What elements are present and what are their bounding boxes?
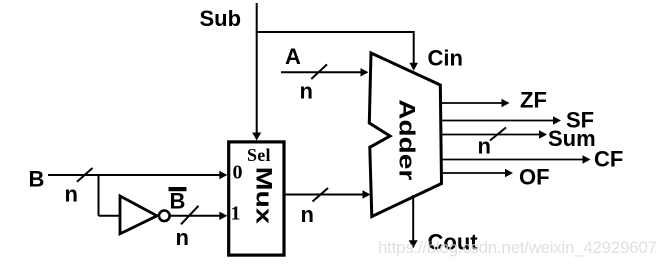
wire OF output	[443, 172, 507, 174]
arrowhead Cin into adder	[409, 63, 418, 71]
arrowhead Cout	[409, 240, 418, 248]
svg-text:B: B	[29, 167, 45, 192]
wire Sub branch horizontal	[256, 31, 414, 33]
wire B branch to inverter	[99, 215, 121, 217]
wire SF output	[441, 120, 555, 122]
mux box	[229, 142, 284, 255]
svg-text:A: A	[285, 44, 301, 69]
svg-text:n: n	[478, 134, 491, 159]
svg-text:Adder: Adder	[395, 99, 420, 181]
svg-text:CF: CF	[594, 147, 623, 172]
arrowhead Sel into Mux	[252, 133, 261, 141]
inverter bubble	[159, 211, 170, 222]
wire Sum output	[441, 134, 540, 136]
arrowhead Bbar into Mux 1	[219, 212, 227, 220]
svg-text:https://blog.csdn.net/weixin_4: https://blog.csdn.net/weixin_42929607	[378, 238, 657, 257]
wire ZF output	[441, 102, 504, 104]
arrowhead Sum	[539, 130, 547, 138]
svg-text:1: 1	[231, 203, 241, 225]
wire Sub vertical	[256, 3, 258, 134]
svg-text:n: n	[176, 225, 189, 250]
svg-text:Sel: Sel	[247, 145, 271, 165]
arrowhead OF	[505, 169, 513, 177]
bus slash B	[77, 168, 93, 182]
svg-text:Cin: Cin	[428, 46, 463, 71]
svg-text:n: n	[301, 202, 314, 227]
arrowhead CF	[583, 155, 591, 163]
arrowhead A into adder	[361, 68, 369, 76]
arrowhead Mux output into adder	[363, 190, 371, 198]
svg-text:ZF: ZF	[520, 88, 547, 113]
arrowhead ZF	[502, 99, 510, 107]
svg-text:n: n	[300, 79, 313, 104]
svg-text:0: 0	[233, 162, 243, 184]
svg-text:n: n	[65, 182, 78, 207]
adder shape	[369, 53, 441, 217]
wire B branch vertical	[98, 175, 100, 216]
arrowhead SF	[553, 116, 561, 124]
bus slash Bbar	[181, 206, 199, 225]
inverter triangle	[120, 196, 157, 234]
arrowhead B into Mux 0	[219, 171, 227, 179]
wire A input	[281, 71, 362, 73]
wire Cout	[412, 195, 414, 242]
wire inverter output	[170, 215, 221, 217]
bus slash Mux output	[313, 188, 329, 202]
svg-text:Mux: Mux	[252, 167, 277, 225]
svg-text:Sub: Sub	[200, 6, 242, 31]
bus slash Sum	[490, 128, 506, 141]
wire Cin vertical	[413, 31, 415, 65]
svg-text:Sum: Sum	[548, 126, 596, 151]
svg-text:B: B	[170, 189, 186, 214]
svg-text:OF: OF	[519, 165, 550, 190]
wire CF output	[442, 159, 584, 161]
wire B input	[48, 174, 221, 176]
wire Mux output	[285, 194, 364, 196]
bus slash A	[311, 64, 327, 79]
label Bbar overline	[169, 187, 187, 191]
